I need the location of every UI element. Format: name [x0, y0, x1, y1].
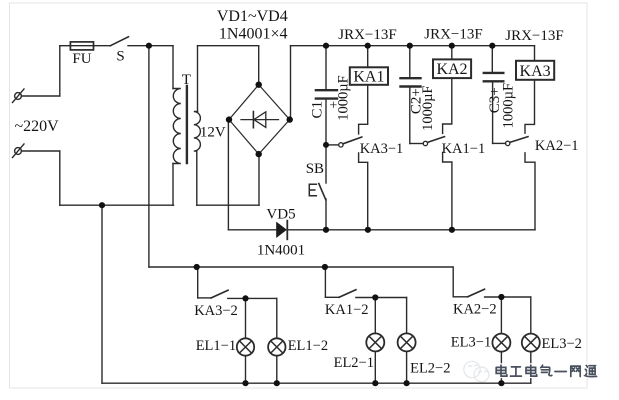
svg-text:1000µF: 1000µF — [420, 85, 436, 130]
svg-text:EL1−1: EL1−1 — [196, 338, 236, 354]
svg-text:1N4001: 1N4001 — [257, 242, 305, 258]
svg-text:FU: FU — [72, 51, 91, 67]
svg-text:12V: 12V — [200, 125, 226, 141]
svg-text:KA1: KA1 — [353, 69, 384, 86]
svg-text:EL2−2: EL2−2 — [410, 361, 450, 377]
svg-text:KA2: KA2 — [436, 61, 467, 78]
svg-text:VD1~VD4: VD1~VD4 — [217, 8, 288, 25]
svg-text:EL2−1: EL2−1 — [334, 355, 374, 371]
svg-text:KA2−2: KA2−2 — [453, 301, 497, 317]
svg-text:1000µF: 1000µF — [501, 83, 517, 128]
svg-text:~220V: ~220V — [14, 118, 59, 135]
svg-text:EL3−2: EL3−2 — [541, 336, 581, 352]
svg-text:KA1−1: KA1−1 — [442, 141, 486, 157]
svg-text:C1: C1 — [309, 101, 325, 119]
svg-text:KA3−1: KA3−1 — [360, 141, 404, 157]
svg-text:VD5: VD5 — [266, 206, 295, 222]
svg-text:KA3: KA3 — [520, 63, 551, 80]
svg-text:1N4001×4: 1N4001×4 — [219, 25, 288, 42]
svg-text:JRX−13F: JRX−13F — [424, 26, 482, 42]
svg-text:JRX−13F: JRX−13F — [338, 27, 396, 43]
svg-text:KA2−1: KA2−1 — [535, 138, 579, 154]
svg-text:T: T — [182, 72, 191, 88]
svg-text:EL1−2: EL1−2 — [288, 338, 328, 354]
svg-text:1000µF: 1000µF — [336, 75, 352, 120]
svg-text:KA1−2: KA1−2 — [325, 302, 369, 318]
svg-text:SB: SB — [306, 161, 324, 177]
svg-text:JRX−13F: JRX−13F — [505, 28, 563, 44]
svg-text:KA3−2: KA3−2 — [194, 303, 238, 319]
svg-text:S: S — [116, 48, 124, 64]
svg-text:EL3−1: EL3−1 — [451, 334, 491, 350]
